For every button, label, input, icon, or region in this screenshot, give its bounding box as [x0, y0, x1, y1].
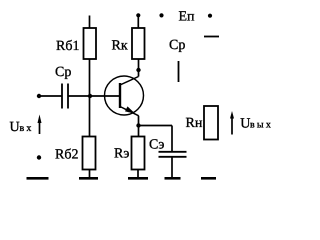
resistor Rб1: [56, 28, 96, 59]
wire: Cэ top lead: [171, 126, 173, 152]
svg-text:Rб1: Rб1: [56, 39, 79, 54]
node: supply dot above Rк: [136, 13, 140, 17]
svg-text:Rн: Rн: [186, 116, 203, 131]
svg-text:U: U: [240, 117, 250, 132]
svg-text:вх: вх: [20, 123, 34, 134]
resistor Rк: [112, 28, 145, 59]
ground: under Rэ: [128, 177, 148, 180]
arrow: Uвх input voltage: [10, 115, 42, 136]
svg-text:Cр: Cр: [55, 65, 71, 80]
node: emitter junction dot: [136, 123, 140, 127]
wire: emitter lead down to node: [138, 116, 140, 137]
wire: Rэ bottom lead: [137, 170, 139, 178]
svg-text:U: U: [10, 120, 20, 135]
capacitor Cр (input coupling): [55, 65, 71, 109]
wire: capacitor to transistor base: [68, 95, 120, 97]
node: Eп left terminal dot: [159, 13, 163, 17]
wire: input to base (through Cр): [39, 95, 62, 97]
svg-text:Rк: Rк: [112, 39, 128, 54]
svg-text:вых: вых: [250, 120, 273, 131]
svg-text:Eп: Eп: [179, 10, 196, 25]
transistor VT1: [105, 76, 144, 116]
wire: top lead of Rк: [137, 15, 139, 28]
node: Eп right terminal dot: [208, 14, 212, 18]
node: input terminal dot: [37, 94, 41, 98]
resistor Rэ: [114, 137, 145, 170]
svg-text:Rб2: Rб2: [55, 148, 78, 163]
node: base junction dot: [88, 94, 92, 98]
wire: Rб2 bottom lead: [89, 170, 91, 178]
power: minus terminal bar of Eп: [204, 36, 219, 38]
wire: bias divider vertical branch: [89, 59, 91, 137]
wire: Cэ bottom lead: [171, 158, 173, 178]
ground: under Rн: [201, 177, 216, 180]
wire: collector lead with node: [138, 59, 140, 77]
arrow: Uвых output voltage: [230, 111, 273, 135]
svg-text:Cэ: Cэ: [149, 138, 164, 153]
capacitor Cэ: [149, 138, 187, 157]
wire: top lead of Rb1: [89, 16, 91, 29]
node: collector junction dot: [136, 68, 140, 72]
capacitor Cр (output, partial lead): [169, 38, 185, 82]
node: lower input terminal dot: [37, 155, 41, 159]
resistor Rб2: [55, 137, 96, 170]
resistor Rн: [186, 106, 219, 140]
svg-text:Rэ: Rэ: [114, 147, 129, 162]
ground: under Rб2: [79, 177, 98, 180]
wire: emitter node to Cэ branch: [139, 125, 173, 127]
ground: under Cэ: [165, 177, 181, 180]
ground: lower-left terminal bar: [27, 177, 49, 180]
svg-text:Cр: Cр: [169, 38, 185, 53]
